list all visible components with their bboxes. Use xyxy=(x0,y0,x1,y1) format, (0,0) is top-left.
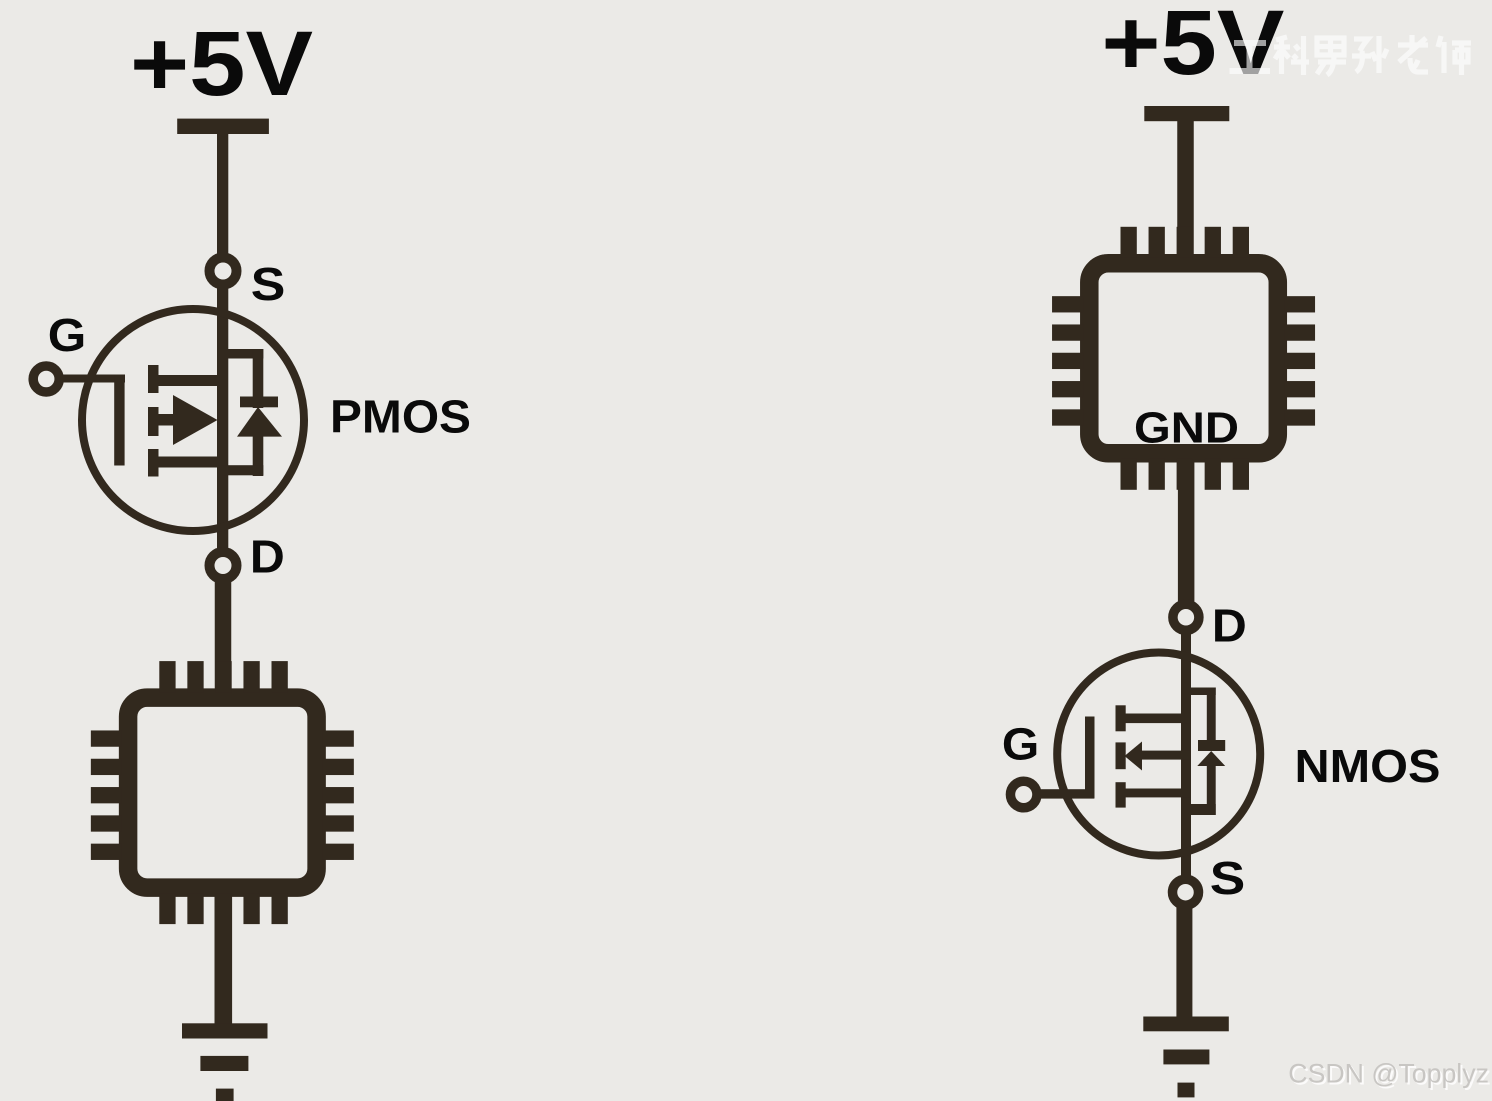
师 xyxy=(1438,36,1471,75)
wire: S node through PMOS to D node (main vertical) xyxy=(217,284,228,552)
PMOS body stub bar xyxy=(155,414,185,426)
NMOS source stub (bottom) xyxy=(1123,789,1191,798)
NMOS body stub bar xyxy=(1139,751,1191,760)
node D (NMOS drain) xyxy=(1173,604,1199,630)
wire: chip to ground (left) xyxy=(215,895,233,1024)
PMOS channel bottom segment xyxy=(148,449,159,477)
svg-text:G: G xyxy=(48,309,87,361)
PMOS channel top segment xyxy=(148,365,159,393)
PMOS gate bar xyxy=(114,375,124,466)
transistor Q2 NMOS body circle xyxy=(1057,653,1260,856)
body diode vertical anode side (right) xyxy=(1207,765,1216,815)
ground symbol (right) bar 1 xyxy=(1143,1017,1229,1032)
body diode bottom connector (right) xyxy=(1185,804,1216,815)
工 xyxy=(1230,43,1271,71)
body diode bottom connector (left) xyxy=(222,465,263,475)
NMOS gate bar xyxy=(1085,717,1095,799)
孙 xyxy=(1352,36,1387,73)
MCU chip U2 (right) xyxy=(1052,227,1315,490)
ground symbol (left) bar 1 xyxy=(182,1023,268,1038)
svg-text:NMOS: NMOS xyxy=(1295,740,1441,792)
NMOS channel top segment xyxy=(1116,705,1126,731)
PMOS drain stub (bottom) xyxy=(155,457,228,468)
ground symbol (right) bar 2 xyxy=(1163,1050,1209,1065)
body diode vertical anode side (left) xyxy=(253,436,264,476)
ground symbol (left) bar 2 xyxy=(200,1056,248,1071)
男 xyxy=(1317,38,1346,75)
svg-text:S: S xyxy=(251,258,286,310)
node S (PMOS source) xyxy=(210,258,237,285)
svg-text:G: G xyxy=(1002,719,1039,770)
PMOS source stub (top) xyxy=(155,375,228,386)
wire: D node through NMOS to S node (main vertical) xyxy=(1181,630,1191,882)
wire: GND chip to D node (right) xyxy=(1178,462,1195,604)
wire: power rail to S node (left) xyxy=(217,132,228,254)
svg-text:D: D xyxy=(1212,600,1247,652)
NMOS body arrow xyxy=(1125,742,1143,771)
老 xyxy=(1398,35,1428,72)
node D (PMOS drain) xyxy=(210,552,237,579)
body diode top connector (right) xyxy=(1185,688,1216,696)
NMOS channel bottom segment xyxy=(1116,782,1126,807)
svg-text:+5V: +5V xyxy=(130,13,313,115)
wire: G terminal to gate bar (right) xyxy=(1036,789,1094,798)
ground symbol (left) bar 3 xyxy=(216,1089,234,1101)
transistor Q1 PMOS body circle xyxy=(82,309,304,531)
wire: power rail to GND chip (right) xyxy=(1177,120,1194,255)
body diode cathode bar (right) xyxy=(1198,740,1225,751)
PMOS body arrow xyxy=(173,395,218,445)
body diode top connector (left) xyxy=(222,349,263,359)
gate terminal circle (PMOS G) xyxy=(33,366,59,392)
body diode anode triangle (left) xyxy=(237,407,282,437)
wire: D node to MCU chip (left) xyxy=(215,579,232,690)
body diode vertical cathode side (right) xyxy=(1207,688,1216,742)
wire: G terminal to gate bar (left) xyxy=(58,375,125,383)
ground symbol (right) bar 3 xyxy=(1178,1083,1195,1098)
+5V power rail bar (right) xyxy=(1144,106,1229,121)
body diode vertical cathode side (left) xyxy=(253,349,264,408)
科 xyxy=(1274,36,1309,75)
watermark 工科男孙老师 (white translucent strokes) xyxy=(1230,35,1472,75)
MCU chip U1 (left) xyxy=(91,661,354,924)
svg-text:CSDN @Topplyz: CSDN @Topplyz xyxy=(1288,1059,1489,1089)
svg-text:GND: GND xyxy=(1134,404,1239,453)
PMOS channel middle segment xyxy=(148,407,159,436)
svg-text:D: D xyxy=(250,531,285,583)
svg-text:S: S xyxy=(1210,852,1246,904)
gate terminal circle (NMOS G) xyxy=(1010,781,1036,808)
body diode cathode bar (left) xyxy=(240,397,278,408)
svg-text:PMOS: PMOS xyxy=(330,391,471,443)
NMOS channel middle segment xyxy=(1116,742,1126,769)
body diode anode triangle (right) xyxy=(1197,751,1225,766)
NMOS drain stub (top) xyxy=(1123,714,1191,724)
wire: S node to ground (right) xyxy=(1176,906,1192,1017)
node S (NMOS source) xyxy=(1173,879,1199,905)
+5V power rail bar (left) xyxy=(177,119,269,134)
svg-text:+5V: +5V xyxy=(1101,0,1284,94)
